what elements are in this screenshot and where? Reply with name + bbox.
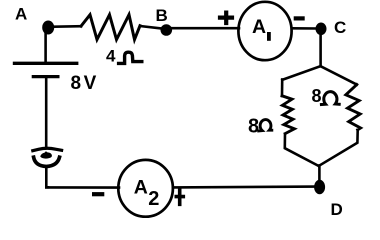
svg-text:8: 8 xyxy=(312,86,322,106)
svg-text:8V: 8V xyxy=(71,73,99,94)
wire parallel junction down to D xyxy=(318,166,321,182)
node B junction dot xyxy=(161,24,173,36)
battery long plate xyxy=(15,62,77,65)
svg-text:D: D xyxy=(331,200,343,219)
value label ohm symbol for 4 ohm xyxy=(119,52,142,63)
wire split to left branch xyxy=(282,66,320,80)
svg-text:A: A xyxy=(252,16,266,38)
svg-text:A: A xyxy=(134,176,148,198)
resistor R1 4 ohm zigzag xyxy=(81,15,140,40)
key switch bottom contact arc xyxy=(34,157,60,166)
left branch upper lead xyxy=(281,80,284,97)
polarity minus sign right of A1 xyxy=(294,16,305,20)
node C junction dot xyxy=(316,23,327,36)
svg-text:2: 2 xyxy=(148,188,159,210)
key switch plug blob xyxy=(40,151,52,158)
wire A2 to node D xyxy=(173,185,315,188)
battery short plate xyxy=(33,75,58,78)
right branch lower lead to junction xyxy=(319,130,358,166)
wire B to ammeter A1 xyxy=(170,27,239,30)
ammeter A2 xyxy=(118,160,173,217)
left branch lower lead to junction xyxy=(285,134,319,166)
svg-text:B: B xyxy=(156,6,168,25)
key switch top contact arc xyxy=(33,148,62,150)
wire C down to parallel split xyxy=(319,33,322,66)
bottom wire corner to A2 xyxy=(46,186,119,189)
wire A to resistor xyxy=(48,25,81,28)
wire A down to battery xyxy=(44,30,47,62)
wire A1 to node C xyxy=(292,27,317,30)
value label ohm symbol right xyxy=(321,92,339,105)
resistor 8 ohm left zigzag xyxy=(282,96,294,134)
polarity plus sign right of A2 xyxy=(176,189,183,205)
svg-text:A: A xyxy=(15,5,27,24)
wire key to bottom corner xyxy=(46,167,48,188)
svg-text:4: 4 xyxy=(106,47,116,66)
wire split to right branch xyxy=(321,66,357,84)
ammeter A1 xyxy=(238,2,291,60)
node D junction dot xyxy=(314,180,325,195)
node A junction dot xyxy=(42,21,54,35)
wire resistor to node B xyxy=(140,26,162,29)
polarity plus sign left of A1 xyxy=(220,13,232,23)
wire battery to key xyxy=(45,78,48,148)
resistor 8 ohm right zigzag xyxy=(346,85,361,130)
svg-text:8: 8 xyxy=(248,116,259,138)
polarity minus sign left of A2 xyxy=(92,192,104,196)
value label ohm symbol left xyxy=(259,120,272,131)
svg-text:C: C xyxy=(334,18,346,37)
